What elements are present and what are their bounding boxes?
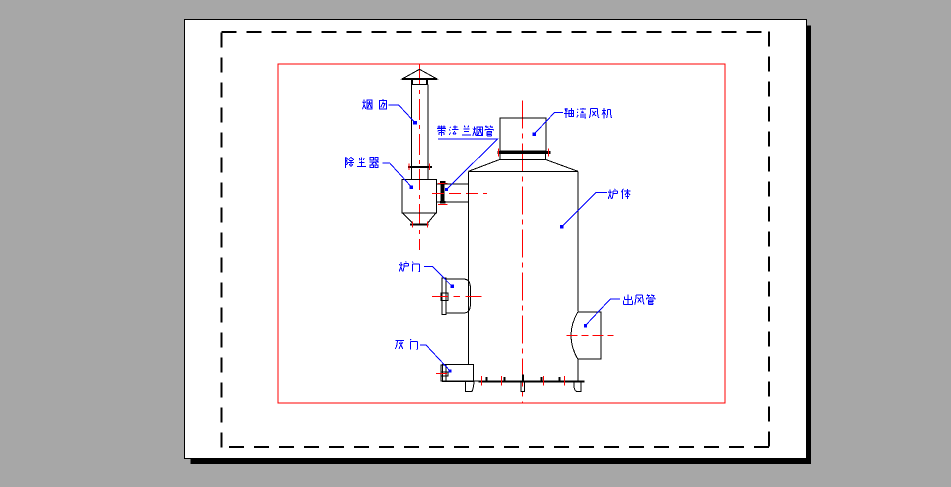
label chufengguan [624,294,656,304]
dust collector body [402,180,437,214]
air outlet pipe [571,312,601,359]
chimney lower pipe [411,168,428,180]
dust collector bottom flange [410,224,428,226]
ash door body [443,364,474,381]
label lumen [399,261,419,272]
paper drop shadow [191,26,811,464]
base grate bar [479,381,585,383]
smoke pipe flange bar [441,181,445,204]
label chuchenqi [345,157,379,168]
furnace right edge [577,171,579,381]
chimney pipe [411,85,428,166]
grate red ticks [481,376,564,386]
smoke pipe body [445,184,469,202]
label huimen [395,339,417,349]
chimney centerline [418,64,420,250]
leader chuchenqi [382,163,411,187]
label yancong [363,99,387,109]
furnace top edge [469,170,578,172]
red drawing frame [278,64,725,403]
leader lumen [424,266,452,286]
chimney rain cap [402,69,437,79]
furnace left edge [468,171,470,364]
left foot [465,382,474,392]
right foot [574,382,581,392]
furnace neck [500,154,546,160]
label luti [608,189,630,199]
leader luti [562,193,607,227]
white paper sheet [185,20,807,459]
dust collector cone [403,213,436,223]
ash door latch [441,372,448,376]
leader huimen [420,345,450,371]
leader yancong [389,105,416,123]
label dafalanyanguan [437,126,494,136]
leader zhouliufengji [535,112,563,133]
smoke pipe stub [437,184,441,202]
furnace door latch [441,293,448,300]
chimney collar [412,79,427,85]
furnace centerline [522,101,524,404]
outlet centerline [567,334,614,336]
leader chufengguan [586,299,620,325]
furnace shoulders [469,159,578,171]
furnace door centerline [432,296,482,298]
furnace door back plate [442,278,446,314]
smoke pipe centerline [432,192,487,194]
furnace door body [446,279,470,313]
axial fan box [500,118,546,151]
furnace bottom line [443,380,585,382]
ash door back plate [441,365,446,381]
ash door red tick [436,373,447,375]
grate black ticks [487,375,560,381]
fan flange band [498,151,551,154]
chimney flange [408,166,432,168]
dashed margin border [222,32,770,448]
leader dafalanyanguan underline [438,139,498,189]
label zhouliufengji [564,108,612,118]
center foot [521,382,524,392]
